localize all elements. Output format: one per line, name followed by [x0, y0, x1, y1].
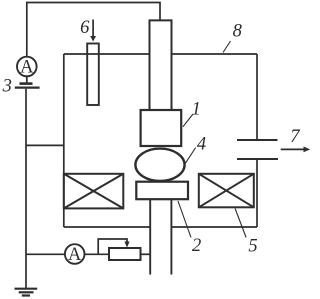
rheostat wiper arm: [98, 239, 127, 254]
pointer line to label 8: [223, 41, 231, 53]
rod left side: [149, 199, 151, 274]
window top plate: [237, 139, 278, 141]
bar 2 (pedestal): [136, 182, 188, 200]
ammeter A1: [17, 57, 37, 77]
block 1: [141, 110, 182, 146]
pointer line to label 5: [235, 209, 246, 238]
coil 5 (right crossed box): [199, 174, 254, 208]
svg-text:3: 3: [2, 77, 12, 97]
wire top-left loop from ammeter to tube top: [27, 3, 160, 58]
chamber bottom wall (right of rod): [171, 226, 257, 228]
wire junction to ammeter A2: [26, 253, 65, 255]
rheostat R: [109, 248, 141, 260]
svg-text:4: 4: [197, 135, 206, 155]
chamber top wall (left of tube): [64, 53, 150, 55]
ammeter A2: [65, 244, 85, 264]
battery B (short plate): [20, 82, 33, 85]
beam arrow 7: [281, 148, 306, 150]
window bottom plate: [237, 158, 278, 160]
wire ammeter to battery: [26, 76, 28, 83]
chamber left wall: [63, 54, 65, 227]
svg-text:A: A: [68, 245, 82, 265]
wire rheostat to rod: [141, 253, 151, 255]
chamber bottom wall (left of rod): [64, 226, 150, 228]
svg-text:2: 2: [192, 236, 201, 256]
chamber right wall lower: [256, 159, 258, 227]
wire A2 to rheostat: [85, 253, 110, 255]
arrow into tube 6: [92, 20, 94, 38]
rheostat wiper arrowhead: [124, 242, 129, 248]
svg-text:8: 8: [233, 21, 243, 41]
wire battery down to ground: [25, 89, 27, 289]
pointer line to label 4: [185, 148, 196, 164]
pointer line to label 1: [183, 114, 193, 127]
svg-text:5: 5: [248, 237, 257, 257]
inlet tube 6: [87, 44, 99, 106]
svg-text:A: A: [20, 58, 34, 78]
wire battery column to chamber left wall: [26, 144, 64, 146]
battery B (long plate): [15, 86, 40, 88]
chamber top wall (right of tube), node 8: [172, 53, 258, 55]
chamber right wall upper: [256, 54, 258, 140]
ground: [15, 289, 38, 296]
rod right side: [170, 199, 172, 274]
ellipse 4 (melt zone): [135, 149, 184, 181]
svg-text:6: 6: [80, 18, 90, 38]
pointer line to label 2: [178, 201, 191, 238]
svg-text:1: 1: [192, 99, 201, 119]
coil L1 (left crossed box): [64, 174, 124, 209]
svg-text:7: 7: [290, 127, 300, 147]
central column tube: [150, 20, 172, 110]
